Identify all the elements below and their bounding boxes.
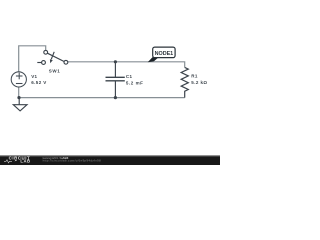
svg-text:C1: C1	[126, 74, 133, 79]
watermark footer bar	[0, 155, 220, 165]
svg-text:NODE1: NODE1	[155, 51, 174, 57]
junction dot V1/ground on bottom rail	[17, 96, 20, 99]
svg-text:5.2 mF: 5.2 mF	[126, 81, 144, 86]
switch SW1	[37, 50, 68, 64]
wire bottom rail	[19, 97, 185, 99]
svg-text:V1: V1	[31, 74, 37, 79]
junction dot C1 bottom	[114, 96, 117, 99]
svg-text:5.2 kΩ: 5.2 kΩ	[191, 80, 207, 85]
node flag NODE1 tail	[148, 57, 159, 62]
svg-text:LAB: LAB	[20, 159, 30, 164]
capacitor C1	[106, 62, 125, 98]
logo waveform	[4, 160, 12, 163]
wire mid rail from SW1 to R1 corner	[68, 62, 185, 68]
wire top from V1 up and over to SW1	[19, 46, 46, 72]
wire from V1 bottom down to bottom rail	[18, 87, 20, 98]
junction dot C1 top	[114, 60, 117, 63]
ground	[13, 98, 27, 111]
svg-text:6.52 V: 6.52 V	[31, 80, 47, 85]
svg-text:R1: R1	[191, 74, 198, 79]
svg-text:SW1: SW1	[49, 69, 61, 74]
resistor R1	[181, 67, 188, 97]
voltage source V1	[11, 72, 26, 87]
svg-text:http://circuitlab.com/c/6e9p94: http://circuitlab.com/c/6e9p94dzfv98	[43, 159, 101, 163]
node flag NODE1 box	[153, 47, 175, 58]
logo bolt	[15, 159, 18, 161]
